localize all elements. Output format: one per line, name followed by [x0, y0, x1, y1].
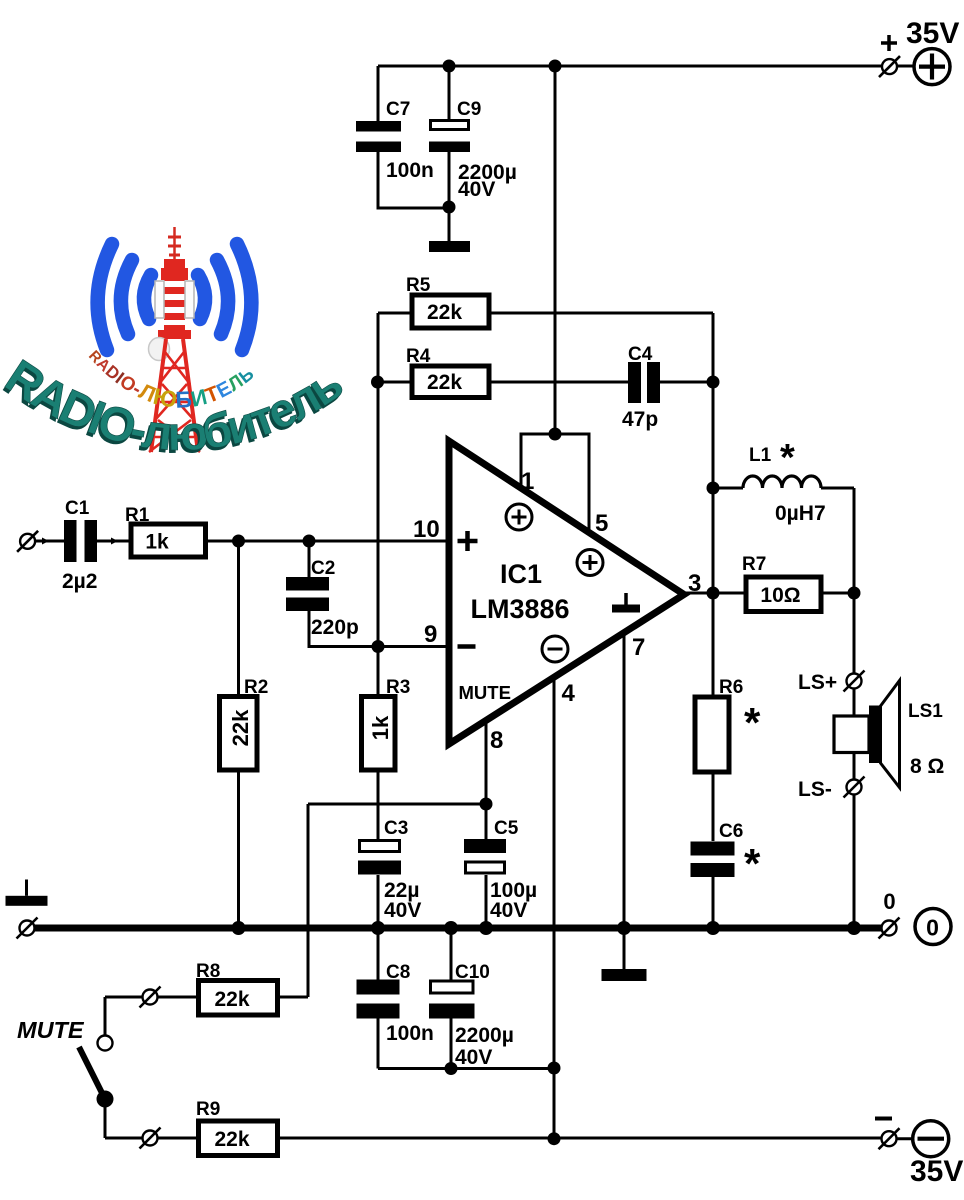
- svg-text:R3: R3: [386, 677, 410, 698]
- svg-text:C2: C2: [311, 558, 335, 579]
- svg-text:10: 10: [413, 516, 440, 543]
- svg-text:10Ω: 10Ω: [760, 584, 800, 607]
- svg-text:40V: 40V: [490, 899, 527, 922]
- svg-text:C9: C9: [457, 99, 481, 120]
- svg-text:220p: 220p: [311, 616, 359, 639]
- svg-text:22k: 22k: [427, 301, 462, 324]
- svg-text:40V: 40V: [384, 899, 421, 922]
- svg-text:9: 9: [424, 621, 437, 648]
- svg-text:R8: R8: [196, 961, 220, 982]
- svg-text:47p: 47p: [622, 408, 658, 431]
- svg-text:C1: C1: [65, 498, 90, 519]
- svg-text:100n: 100n: [386, 1022, 434, 1045]
- svg-text:R9: R9: [196, 1099, 220, 1120]
- svg-text:2200µ: 2200µ: [455, 1024, 514, 1047]
- svg-text:C6: C6: [719, 821, 743, 842]
- svg-text:1k: 1k: [145, 531, 169, 554]
- svg-text:22k: 22k: [427, 371, 462, 394]
- svg-text:*: *: [744, 699, 761, 746]
- svg-text:3: 3: [688, 570, 701, 597]
- svg-text:22k: 22k: [214, 988, 249, 1011]
- svg-text:1: 1: [521, 468, 534, 495]
- svg-text:35V: 35V: [906, 17, 959, 50]
- svg-text:C5: C5: [494, 818, 519, 839]
- svg-text:0: 0: [883, 889, 895, 914]
- svg-text:0: 0: [926, 915, 939, 941]
- svg-text:MUTE: MUTE: [17, 1017, 85, 1043]
- svg-text:*: *: [744, 840, 761, 887]
- svg-text:*: *: [780, 437, 795, 479]
- svg-text:MUTE: MUTE: [459, 682, 511, 703]
- svg-text:7: 7: [632, 634, 645, 661]
- svg-text:C8: C8: [386, 962, 410, 983]
- svg-text:L1: L1: [749, 445, 772, 466]
- svg-text:2µ2: 2µ2: [62, 570, 97, 593]
- svg-text:8 Ω: 8 Ω: [910, 755, 944, 778]
- svg-text:R7: R7: [742, 554, 766, 575]
- svg-text:C10: C10: [455, 962, 490, 983]
- svg-text:40V: 40V: [455, 1046, 492, 1069]
- svg-text:R4: R4: [406, 346, 431, 367]
- svg-text:40V: 40V: [458, 178, 495, 201]
- svg-text:4: 4: [562, 680, 576, 707]
- svg-text:0µH7: 0µH7: [775, 502, 826, 525]
- svg-text:100n: 100n: [386, 159, 434, 182]
- svg-text:1k: 1k: [368, 715, 393, 740]
- svg-text:C7: C7: [386, 99, 410, 120]
- svg-text:22k: 22k: [228, 709, 253, 746]
- svg-text:R5: R5: [406, 275, 431, 296]
- svg-text:LM3886: LM3886: [470, 594, 569, 624]
- svg-text:8: 8: [490, 727, 503, 754]
- svg-text:R6: R6: [719, 677, 743, 698]
- svg-text:LS+: LS+: [798, 671, 837, 694]
- svg-text:LS-: LS-: [798, 778, 832, 801]
- svg-text:C4: C4: [628, 344, 653, 365]
- svg-text:5: 5: [595, 510, 608, 537]
- svg-text:LS1: LS1: [908, 701, 943, 722]
- svg-text:35V: 35V: [910, 1155, 963, 1188]
- svg-text:C3: C3: [384, 818, 408, 839]
- svg-text:R1: R1: [125, 505, 150, 526]
- svg-text:R2: R2: [244, 677, 268, 698]
- svg-text:IC1: IC1: [500, 559, 542, 589]
- svg-text:22k: 22k: [214, 1128, 249, 1151]
